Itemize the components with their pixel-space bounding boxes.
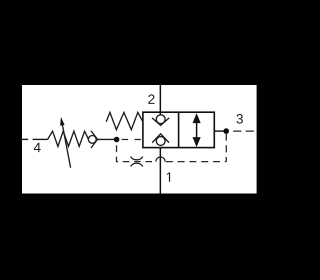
envelope separator (178, 112, 180, 147)
pilot line crossover hop over port 1 line (156, 157, 165, 162)
label 4 (34, 143, 41, 152)
adjustment arrow through spring (60, 117, 70, 168)
port 3 dashed lead (233, 130, 256, 132)
port 3 node (223, 128, 229, 134)
port 4 lead line (dash + solid), node 4 (22, 138, 48, 140)
port 2 line (159, 85, 161, 115)
junction node (pilot tee) (114, 137, 120, 143)
relief valve seat (91, 131, 98, 148)
label 2 (148, 94, 154, 103)
wire seat to junction (97, 138, 114, 140)
port 1 line (159, 148, 161, 194)
check poppet top (ball) (156, 115, 165, 124)
check poppet bottom seat (152, 134, 169, 143)
white drawing canvas (22, 85, 257, 194)
check poppet bottom (ball) (156, 137, 165, 146)
port 3 line solid stub (214, 130, 223, 132)
pilot line: junction down and along bottom to hop (117, 143, 156, 162)
pilot line: hop to bottom-right corner (166, 161, 227, 163)
label 3 (236, 114, 242, 124)
pilot line: junction to valve left side (122, 139, 143, 141)
orifice (fixed restriction) in pilot line (131, 157, 143, 167)
check poppet top seat (152, 118, 169, 125)
relief check ball (88, 136, 96, 144)
adjustable spring (relief setting spring) (48, 131, 89, 146)
flow path double arrow (open position) (193, 113, 201, 147)
valve bias spring (106, 112, 143, 129)
valve envelope (2-position cartridge) (143, 112, 214, 147)
label 1 (167, 172, 170, 181)
pilot line: up right side to port 3 node (225, 134, 227, 162)
